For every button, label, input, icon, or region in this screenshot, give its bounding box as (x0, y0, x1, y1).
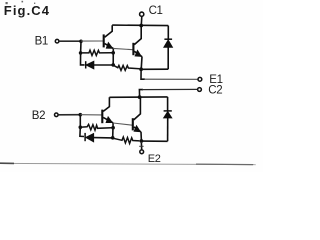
wire K5 up to C2 (139, 90, 143, 98)
resistor R3 (82, 124, 112, 130)
wire K2 down and over to D3 (80, 127, 84, 136)
freewheel diode D2 (164, 26, 173, 70)
transistor Q2 (133, 26, 142, 59)
wire K1 to Q3 base (80, 114, 101, 116)
node J4 (111, 63, 115, 67)
top rail C1 (112, 24, 168, 27)
wire D3 to node K4 (94, 137, 113, 139)
wire to terminal C2 (142, 88, 197, 90)
page fold line (0, 163, 256, 164)
wire Q2 emitter down to J6 (140, 57, 143, 70)
wire Q4 emitter down to K6 (140, 132, 142, 141)
node K2 (79, 125, 83, 129)
node J3 (111, 51, 115, 55)
bottom rail to diode branch lower (141, 140, 167, 142)
scan noise dots (6, 1, 36, 4)
wire B2 to node K1 (58, 114, 80, 116)
wire Q1 emitter to Q2 base (113, 48, 133, 49)
diode D1 (86, 61, 94, 69)
wire B1 to node J1 (59, 40, 81, 42)
page fold line dark right end (196, 163, 253, 166)
wire K6 down to E2 (140, 143, 142, 150)
terminal C1 (140, 12, 144, 16)
svg-text:E2: E2 (148, 153, 161, 165)
wire C1 lead (140, 17, 143, 26)
terminal E1 (198, 77, 202, 81)
node J1 (79, 40, 83, 44)
terminal B1 (55, 39, 59, 43)
resistor R2 (113, 65, 139, 70)
wire J1 to Q1 base (81, 40, 103, 42)
svg-text:B1: B1 (35, 36, 48, 48)
wire emitter node through J3 to J4 (112, 48, 114, 65)
wire emitter node through K3 to K4 (112, 123, 114, 138)
terminal B2 (55, 113, 59, 117)
wire J2 down and over to D1 (81, 53, 85, 65)
resistor R4 (113, 137, 140, 144)
wire D1 to node J4 (94, 64, 113, 66)
node J5 (139, 24, 143, 28)
wire K1 down to K2 (79, 115, 81, 128)
tick on E2 lead (139, 145, 143, 147)
freewheel diode D4 (164, 97, 172, 141)
diode D3 (85, 133, 94, 142)
node J6 (139, 67, 143, 71)
terminal C2 (198, 88, 202, 92)
svg-text:C2: C2 (208, 85, 222, 97)
resistor R1 (82, 50, 112, 55)
node K5 (138, 95, 142, 99)
node K3 (111, 126, 115, 130)
transistor Q1 (104, 25, 114, 51)
svg-text:C1: C1 (149, 5, 163, 17)
wire J1 down to J2 (80, 41, 82, 53)
wire J6 down to E1 (141, 69, 145, 79)
transistor Q3 (102, 97, 113, 125)
top rail of lower half (109, 96, 167, 98)
node K6 (140, 139, 144, 143)
node K1 (79, 113, 83, 117)
node J2 (79, 51, 83, 55)
svg-text:Fig.C4: Fig.C4 (4, 3, 50, 18)
page fold line dark left end (0, 162, 14, 164)
wire to terminal E1 (144, 78, 198, 80)
transistor Q4 (133, 97, 142, 134)
node K4 (111, 136, 115, 140)
svg-text:B2: B2 (32, 110, 45, 122)
bottom rail to diode branch (141, 68, 168, 70)
terminal E2 (140, 150, 144, 154)
wire Q3 emitter to Q4 base (113, 123, 132, 125)
